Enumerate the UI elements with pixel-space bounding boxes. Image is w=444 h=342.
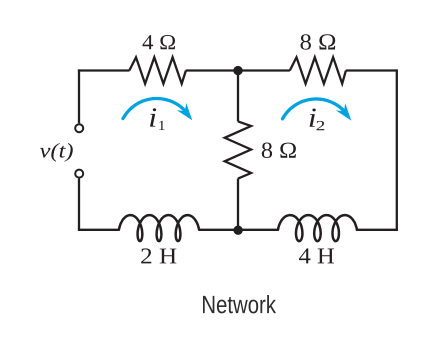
wire right side vertical (396, 69, 398, 229)
resistor R2 8-ohm zigzag (290, 57, 346, 83)
terminal lower open circle (75, 170, 83, 178)
mesh current arrow i1 head (177, 103, 192, 120)
wire node B to L2 (238, 229, 278, 231)
mesh current arrow i1 arc (123, 98, 187, 118)
inductor L2 4 H coil (278, 215, 357, 241)
label 4 H (299, 248, 334, 263)
inductor L1 2 H coil (119, 215, 199, 241)
label 2 H (141, 248, 176, 263)
wire L1 to node B (199, 229, 238, 231)
source label v(t) (40, 143, 73, 162)
wire R3 down to node B (237, 179, 239, 230)
wire left side lower vertical (78, 179, 80, 230)
wire top-left horizontal (left corner to R1) (78, 69, 130, 71)
wire L2 to bottom-right corner (357, 229, 399, 231)
label 8 ohm top (301, 34, 336, 50)
label 8 ohm middle (262, 142, 296, 158)
wire R2 to top-right corner (346, 69, 397, 71)
resistor R1 4-ohm zigzag (129, 57, 186, 83)
wire node A down to R3 (237, 71, 239, 122)
mesh current arrow i2 head (336, 103, 351, 120)
resistor R3 8-ohm vertical zigzag (225, 121, 251, 178)
wire R1 to node A (186, 69, 238, 71)
wire node A to R2 (238, 69, 290, 71)
label i1 (150, 108, 165, 130)
label i2 (310, 108, 325, 130)
mesh current arrow i2 arc (283, 99, 346, 119)
wire bottom-left corner to L1 (78, 229, 119, 231)
caption Network (203, 295, 276, 313)
label 4 ohm (142, 35, 174, 49)
node B bottom junction dot (233, 226, 242, 235)
wire left side upper vertical (78, 69, 80, 123)
node A top junction dot (233, 66, 242, 75)
terminal upper open circle (75, 124, 83, 132)
